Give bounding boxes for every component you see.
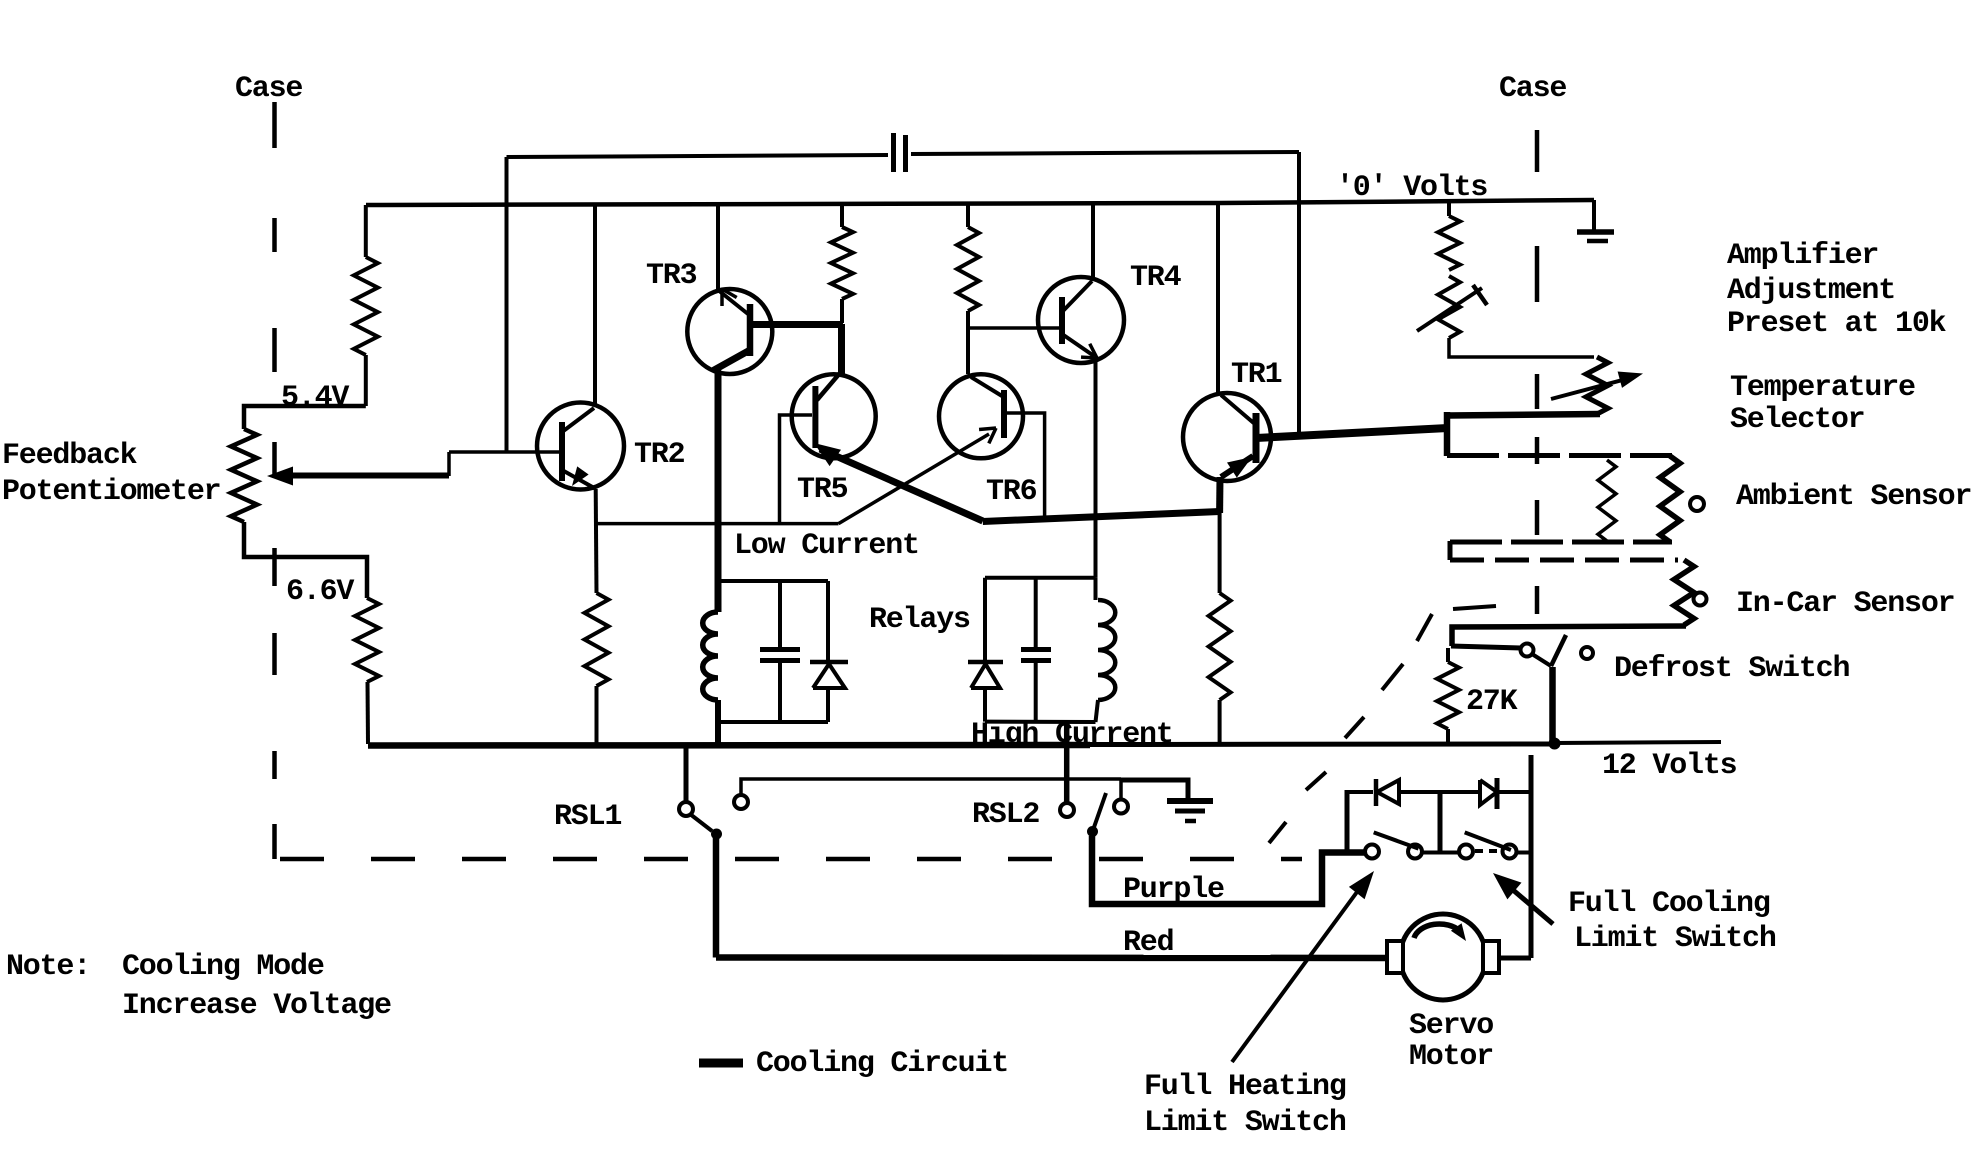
wire R2 to 12V rail bbox=[366, 682, 371, 744]
wire mid riser bbox=[1438, 790, 1443, 852]
svg-text:TR2: TR2 bbox=[634, 438, 685, 472]
wire TR4 base bbox=[969, 326, 1060, 330]
wire TR1 output (thick) bbox=[1256, 428, 1448, 438]
wire sensor bus step bbox=[1448, 541, 1453, 560]
wire TR2 emitter bbox=[594, 489, 599, 593]
switch defrost lever bbox=[1551, 635, 1566, 666]
terminal limit switch c2 bbox=[1408, 845, 1422, 859]
node Case (left case boundary, dashed) bbox=[272, 102, 277, 859]
wire cooling cross horizontal (thick) bbox=[983, 512, 1220, 522]
terminal defrost contact A bbox=[1521, 644, 1534, 657]
svg-text:Potentiometer: Potentiometer bbox=[2, 475, 220, 509]
node '0' Volts rail bbox=[366, 200, 1594, 205]
wire red drop (thick) bbox=[713, 838, 720, 958]
capacitor C3 (RLB) bbox=[1021, 578, 1051, 722]
diode D4 (cooling hold) bbox=[1480, 778, 1497, 809]
wire c2-c3 bbox=[1422, 851, 1459, 855]
relay RLB coil (high current) bbox=[1096, 578, 1116, 722]
junction RSL2 pivot bbox=[1087, 826, 1098, 837]
potentiometer RV1 feedback bbox=[231, 429, 257, 522]
svg-text:12 Volts: 12 Volts bbox=[1602, 749, 1737, 783]
junction 12V/defrost bbox=[1549, 738, 1561, 750]
wire motor right terminal bbox=[1499, 956, 1531, 961]
wire temp selector left edge (thick) bbox=[1444, 412, 1451, 456]
terminal limit switch c1 bbox=[1365, 845, 1379, 859]
terminal ambient sensor bbox=[1690, 497, 1704, 511]
wire TR3 emitter (thick) bbox=[716, 350, 750, 612]
wire in-car bottom (thick) bbox=[1452, 626, 1686, 646]
wire TR4 collector to rail bbox=[1091, 204, 1095, 281]
svg-text:Selector: Selector bbox=[1730, 403, 1864, 437]
resistor RV2 upper bbox=[1438, 216, 1460, 270]
wire R1 to 5.4V corner bbox=[364, 355, 368, 406]
svg-text:TR5: TR5 bbox=[797, 473, 848, 507]
arrow full cooling pointer bbox=[1493, 873, 1553, 924]
wire defrost feed bbox=[1451, 646, 1521, 648]
svg-text:RSL1: RSL1 bbox=[554, 800, 621, 834]
wire TR1 emitter corner (thick) bbox=[1216, 477, 1223, 513]
svg-text:Defrost Switch: Defrost Switch bbox=[1614, 652, 1849, 686]
thermistor RT1a ambient (inner) bbox=[1598, 460, 1616, 541]
node 12 Volts rail bbox=[368, 742, 1721, 746]
wire RLB output (crosses rail) bbox=[1064, 722, 1070, 803]
ground symbol (RSL2) bbox=[1167, 801, 1213, 821]
svg-text:Feedback: Feedback bbox=[2, 439, 138, 473]
relay RLA coil (low current) bbox=[703, 612, 718, 700]
wire preset stub bbox=[1447, 200, 1451, 216]
wire servo right leg bbox=[1529, 755, 1534, 958]
wire R7 to rail bbox=[1218, 700, 1222, 744]
legend cooling circuit sample (thick) bbox=[699, 1059, 743, 1068]
thermistor RT2 in-car (thick) bbox=[1674, 560, 1694, 625]
preset RV2 lower (variable) bbox=[1438, 276, 1460, 338]
wire TR2 collector to rail bbox=[593, 204, 597, 406]
wire cap left drop to TR2 base node bbox=[505, 157, 509, 451]
wire preset to temp selector bbox=[1449, 338, 1594, 357]
wire RSL1 input from rail bbox=[684, 745, 689, 802]
wire R5 to TR6 collector bbox=[966, 311, 970, 374]
svg-text:Red: Red bbox=[1123, 926, 1173, 960]
resistor R2 (6.6V leg) bbox=[355, 598, 379, 682]
motor M1 servo bbox=[1387, 914, 1499, 1000]
terminal limit switch c4 bbox=[1503, 845, 1517, 859]
resistor R3 (TR2 emitter) bbox=[585, 593, 609, 686]
svg-text:TR3: TR3 bbox=[646, 259, 697, 293]
resistor R1 (upper left) bbox=[354, 257, 378, 355]
svg-text:Cooling Circuit: Cooling Circuit bbox=[756, 1047, 1008, 1081]
potentiometer RV3 temp selector bbox=[1586, 357, 1608, 414]
svg-text:Case: Case bbox=[235, 72, 302, 106]
wire Red to servo motor bbox=[716, 954, 1388, 961]
svg-text:TR4: TR4 bbox=[1130, 261, 1182, 295]
wire cap right drop to TR1 output bbox=[1297, 152, 1301, 433]
terminal RSL2 contact B bbox=[1114, 800, 1128, 814]
terminal RSL2 input bbox=[1060, 803, 1074, 817]
wire 5.4V node bbox=[244, 406, 366, 429]
wire R4 stub bbox=[840, 204, 844, 227]
svg-text:Cooling Mode: Cooling Mode bbox=[122, 950, 324, 984]
svg-text:Limit Switch: Limit Switch bbox=[1144, 1106, 1346, 1140]
capacitor C2 (RLA) bbox=[760, 581, 800, 722]
wire sensor bus lower (dashed) bbox=[1450, 558, 1678, 563]
svg-text:Purple: Purple bbox=[1123, 873, 1224, 907]
wire mechanical linkage (dashed diagonal) bbox=[1269, 606, 1496, 843]
svg-text:27K: 27K bbox=[1466, 685, 1518, 719]
svg-text:Full Heating: Full Heating bbox=[1144, 1070, 1346, 1104]
wire diode row mid-right bbox=[1440, 790, 1478, 794]
svg-text:In-Car Sensor: In-Car Sensor bbox=[1736, 587, 1954, 621]
svg-text:'0' Volts: '0' Volts bbox=[1336, 171, 1487, 205]
wire RLB box top bbox=[985, 576, 1096, 580]
wire RLA box bottom bbox=[715, 720, 828, 724]
wire pot wiper (thick) bbox=[288, 473, 449, 479]
svg-text:Preset at 10k: Preset at 10k bbox=[1727, 307, 1947, 341]
wire RLB box bottom bbox=[985, 720, 1096, 724]
transistor TR2 bbox=[537, 403, 624, 490]
diode D2 (RLB) bbox=[968, 578, 1003, 722]
wire ground riser bbox=[1119, 780, 1123, 799]
wire 27K stub bbox=[1446, 648, 1450, 662]
arrow full heating pointer bbox=[1232, 871, 1374, 1062]
wire diode row right bbox=[1499, 790, 1531, 794]
wire ground bus (thick) bbox=[1121, 780, 1188, 800]
svg-text:Temperature: Temperature bbox=[1730, 371, 1915, 405]
wire heating diode riser bbox=[1345, 790, 1350, 852]
ground symbol (0V) bbox=[1577, 200, 1614, 241]
diode D3 (heating hold) bbox=[1376, 779, 1399, 806]
svg-text:Relays: Relays bbox=[869, 603, 970, 637]
resistor R7 (TR1 emitter) bbox=[1209, 593, 1231, 700]
thermistor RT1 ambient (outer, thick) bbox=[1660, 456, 1680, 542]
svg-text:Case: Case bbox=[1499, 72, 1566, 106]
arrow TR6 emitter bbox=[989, 428, 996, 443]
wire rail left corner to R1 bbox=[364, 205, 368, 257]
svg-text:Full Cooling: Full Cooling bbox=[1568, 887, 1770, 921]
wire c4 to right leg bbox=[1516, 851, 1531, 855]
arrow TR1 emitter bbox=[1227, 457, 1252, 478]
svg-text:6.6V: 6.6V bbox=[286, 575, 354, 609]
wire diode row left bbox=[1347, 790, 1373, 794]
wire R4 to TR3 collector bbox=[840, 299, 844, 323]
terminal defrost contact B bbox=[1581, 647, 1593, 659]
svg-text:Ambient Sensor: Ambient Sensor bbox=[1736, 480, 1971, 514]
wire pot wiper riser bbox=[447, 452, 451, 476]
transistor TR3 bbox=[687, 289, 772, 374]
transistor TR5 bbox=[792, 373, 876, 458]
wire TR1 emitter lower bbox=[1218, 511, 1222, 593]
resistor R4 bbox=[831, 227, 853, 299]
switch RSL2 lever bbox=[1093, 793, 1107, 832]
transistor TR4 bbox=[1038, 277, 1124, 363]
wire diode row mid-left bbox=[1399, 790, 1438, 794]
svg-text:Servo: Servo bbox=[1409, 1009, 1493, 1043]
resistor R8 27K bbox=[1437, 662, 1459, 729]
wire case boundary bottom (dashed horizontal) bbox=[280, 857, 1302, 862]
diode D1 (RLA) bbox=[810, 581, 848, 722]
svg-text:Motor: Motor bbox=[1409, 1040, 1493, 1074]
wire TR5 base riser bbox=[780, 415, 813, 524]
svg-text:RSL2: RSL2 bbox=[972, 798, 1039, 832]
wire TR3 collector (thick) bbox=[752, 321, 843, 328]
svg-text:Adjustment: Adjustment bbox=[1727, 274, 1895, 308]
wire TR3 base to rail bbox=[716, 204, 720, 290]
wire RLA coil to rail bbox=[715, 700, 721, 745]
wire TR2/TR5 base node bbox=[597, 522, 839, 526]
arrow TR5 emitter bbox=[814, 443, 841, 466]
wire c3-c4 (open, dashed) bbox=[1475, 849, 1502, 853]
wire TR5 collector riser (thick) bbox=[838, 324, 845, 374]
wire RLA box top bbox=[715, 579, 828, 583]
capacitor C1 bbox=[894, 133, 906, 172]
switch RSL1 lever bbox=[690, 814, 712, 831]
wire 27K to rail bbox=[1446, 729, 1450, 743]
terminal in-car sensor bbox=[1694, 593, 1707, 606]
svg-text:Limit Switch: Limit Switch bbox=[1574, 922, 1776, 956]
wire R3 to rail bbox=[595, 686, 599, 744]
switch full heating lever bbox=[1374, 832, 1419, 848]
wire temp selector top edge (thick) bbox=[1448, 414, 1600, 416]
terminal RSL1 contact A bbox=[679, 802, 693, 816]
transistor TR6 bbox=[939, 374, 1023, 458]
svg-text:Amplifier: Amplifier bbox=[1727, 239, 1878, 273]
wire sensor bus upper (dashed) bbox=[1447, 453, 1672, 458]
wire feedback top (left segment) bbox=[507, 155, 889, 157]
resistor R5 bbox=[957, 227, 979, 311]
wire R5 stub bbox=[966, 204, 970, 227]
terminal limit switch c3 bbox=[1459, 845, 1473, 859]
wire sensor bus mid (dashed) bbox=[1450, 540, 1672, 545]
wire Purple (thick) bbox=[1092, 836, 1365, 904]
wire TR1 collector to rail bbox=[1216, 204, 1220, 393]
wire diagonal to TR6 emitter bbox=[839, 434, 990, 524]
switch full cooling lever bbox=[1465, 832, 1511, 850]
transistor TR1 bbox=[1183, 393, 1271, 481]
node Case (right case boundary, dashed) bbox=[1535, 130, 1540, 614]
wire TR4 emitter drop bbox=[1094, 358, 1098, 578]
arrow preset adjuster bbox=[1417, 285, 1487, 331]
wire RSL1 B to ground bus bbox=[741, 779, 1121, 795]
svg-text:Note:: Note: bbox=[6, 950, 90, 984]
arrow temp selector wiper bbox=[1551, 372, 1643, 400]
wire defrost link bbox=[1532, 654, 1551, 666]
wire TR6 base bbox=[1004, 413, 1045, 517]
svg-text:High Current: High Current bbox=[971, 718, 1173, 752]
arrow pot wiper bbox=[267, 467, 293, 486]
svg-text:Increase Voltage: Increase Voltage bbox=[122, 989, 391, 1023]
wire RV1 bottom to 6.6V node bbox=[244, 522, 367, 598]
wire feedback top (right segment) bbox=[911, 152, 1299, 154]
terminal RSL1 contact B bbox=[734, 795, 748, 809]
wire TR5 emitter diagonal (thick) bbox=[820, 449, 983, 521]
wire defrost to 12V (thick) bbox=[1549, 667, 1556, 742]
svg-text:TR1: TR1 bbox=[1231, 358, 1282, 392]
wire TR2 base bbox=[449, 450, 562, 454]
svg-text:Low Current: Low Current bbox=[734, 529, 919, 563]
svg-text:TR6: TR6 bbox=[986, 475, 1037, 509]
svg-text:5.4V: 5.4V bbox=[281, 381, 349, 415]
junction RSL1 pivot bbox=[711, 829, 722, 840]
